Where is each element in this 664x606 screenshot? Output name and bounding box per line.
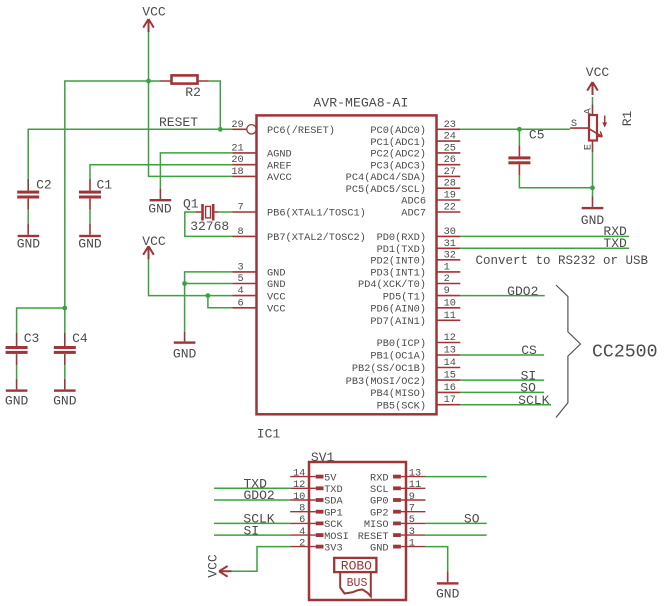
svg-text:VCC: VCC [142, 5, 166, 20]
svg-text:R2: R2 [185, 85, 201, 100]
svg-text:RXD: RXD [370, 472, 389, 484]
svg-text:PD4(XCK/T0): PD4(XCK/T0) [358, 279, 426, 291]
svg-text:Convert to RS232 or USB: Convert to RS232 or USB [476, 254, 649, 268]
svg-text:17: 17 [444, 394, 456, 406]
svg-text:19: 19 [444, 190, 456, 202]
svg-text:SCK: SCK [324, 519, 343, 531]
svg-text:13: 13 [409, 467, 421, 479]
svg-text:23: 23 [444, 119, 456, 131]
svg-text:SCL: SCL [370, 484, 389, 496]
svg-text:GND: GND [78, 237, 102, 252]
svg-text:PB7(XTAL2/TOSC2): PB7(XTAL2/TOSC2) [267, 232, 366, 244]
svg-text:10: 10 [293, 491, 305, 503]
svg-text:11: 11 [444, 310, 456, 322]
svg-text:2: 2 [444, 273, 450, 285]
svg-text:1: 1 [444, 261, 450, 273]
svg-text:AVCC: AVCC [267, 172, 292, 184]
svg-text:RESET: RESET [358, 531, 389, 543]
svg-text:30: 30 [444, 226, 456, 238]
svg-text:PB6(XTAL1/TOSC1): PB6(XTAL1/TOSC1) [267, 208, 366, 220]
svg-text:TXD: TXD [324, 484, 343, 496]
svg-text:PD1(TXD): PD1(TXD) [377, 244, 426, 256]
svg-text:SO: SO [464, 512, 480, 527]
svg-text:8: 8 [299, 503, 305, 515]
svg-text:13: 13 [444, 345, 456, 357]
svg-text:4: 4 [299, 526, 305, 538]
svg-text:29: 29 [231, 119, 243, 131]
svg-text:15: 15 [444, 370, 456, 382]
svg-text:3V3: 3V3 [324, 542, 343, 554]
svg-text:32768: 32768 [190, 219, 229, 234]
svg-text:2: 2 [299, 537, 305, 549]
svg-text:IC1: IC1 [257, 426, 281, 441]
svg-text:SDA: SDA [324, 496, 343, 508]
svg-text:1: 1 [409, 537, 415, 549]
svg-text:PD7(AIN1): PD7(AIN1) [370, 316, 426, 328]
svg-text:GP0: GP0 [370, 496, 389, 508]
svg-text:ADC7: ADC7 [401, 208, 426, 220]
svg-text:GND: GND [53, 393, 77, 408]
svg-text:28: 28 [444, 178, 456, 190]
svg-text:R1: R1 [620, 111, 635, 127]
svg-text:27: 27 [444, 166, 456, 178]
svg-text:14: 14 [293, 467, 305, 479]
svg-text:MISO: MISO [364, 519, 389, 531]
svg-text:PC3(ADC3): PC3(ADC3) [370, 160, 426, 172]
svg-text:RESET: RESET [159, 115, 198, 130]
svg-text:14: 14 [444, 357, 456, 369]
svg-text:GDO2: GDO2 [244, 488, 275, 503]
svg-text:VCC: VCC [142, 234, 166, 249]
svg-text:12: 12 [444, 332, 456, 344]
svg-text:GND: GND [267, 268, 286, 280]
svg-text:PC0(ADC0): PC0(ADC0) [370, 125, 426, 137]
svg-text:C3: C3 [24, 331, 40, 346]
svg-text:PD6(AIN0): PD6(AIN0) [370, 304, 426, 316]
svg-text:3: 3 [409, 526, 415, 538]
svg-text:31: 31 [444, 238, 456, 250]
svg-text:22: 22 [444, 202, 456, 214]
svg-text:SI: SI [244, 523, 260, 538]
svg-text:GND: GND [5, 393, 29, 408]
svg-text:PD3(INT1): PD3(INT1) [370, 268, 426, 280]
svg-text:32: 32 [444, 249, 456, 261]
svg-text:C1: C1 [97, 178, 113, 193]
svg-text:AREF: AREF [267, 160, 292, 172]
svg-text:MOSI: MOSI [324, 531, 349, 543]
svg-text:10: 10 [444, 297, 456, 309]
svg-text:VCC: VCC [267, 304, 286, 316]
svg-text:3: 3 [238, 261, 244, 273]
svg-text:PC1(ADC1): PC1(ADC1) [370, 137, 426, 149]
svg-text:24: 24 [444, 131, 456, 143]
svg-text:5: 5 [409, 514, 415, 526]
svg-text:C5: C5 [529, 127, 545, 142]
svg-text:8: 8 [238, 226, 244, 238]
svg-text:11: 11 [409, 479, 421, 491]
svg-text:C4: C4 [72, 331, 88, 346]
svg-text:PB0(ICP): PB0(ICP) [377, 338, 426, 350]
svg-text:PD5(T1): PD5(T1) [383, 291, 426, 303]
svg-text:6: 6 [299, 514, 305, 526]
svg-text:GP1: GP1 [324, 507, 343, 519]
svg-text:PC6(/RESET): PC6(/RESET) [267, 125, 335, 137]
svg-text:PC2(ADC2): PC2(ADC2) [370, 149, 426, 161]
svg-text:GND: GND [148, 202, 172, 217]
svg-text:AGND: AGND [267, 149, 292, 161]
svg-text:PD0(RXD): PD0(RXD) [377, 232, 426, 244]
svg-text:9: 9 [409, 491, 415, 503]
svg-text:5: 5 [238, 273, 244, 285]
svg-text:CS: CS [521, 343, 537, 358]
svg-text:AVR-MEGA8-AI: AVR-MEGA8-AI [313, 95, 408, 110]
svg-text:VCC: VCC [586, 65, 610, 80]
svg-text:25: 25 [444, 142, 456, 154]
svg-text:C2: C2 [36, 178, 52, 193]
svg-text:GP2: GP2 [370, 507, 389, 519]
svg-text:18: 18 [231, 166, 243, 178]
svg-text:5V: 5V [324, 472, 337, 484]
svg-text:7: 7 [238, 202, 244, 214]
svg-text:BUS: BUS [347, 577, 368, 590]
svg-text:6: 6 [238, 297, 244, 309]
svg-text:GND: GND [581, 213, 605, 228]
svg-text:7: 7 [409, 503, 415, 515]
svg-text:21: 21 [231, 142, 243, 154]
svg-text:S: S [571, 118, 577, 130]
svg-text:PC5(ADC5/SCL): PC5(ADC5/SCL) [346, 184, 426, 196]
svg-text:SCLK: SCLK [518, 393, 549, 408]
svg-text:CC2500: CC2500 [592, 342, 658, 362]
svg-text:PB2(SS/OC1B): PB2(SS/OC1B) [352, 363, 426, 375]
svg-text:PB1(OC1A): PB1(OC1A) [370, 351, 426, 363]
svg-text:GND: GND [436, 587, 460, 602]
svg-text:ROBO: ROBO [341, 558, 372, 573]
svg-text:GND: GND [173, 347, 197, 362]
svg-text:PB4(MISO): PB4(MISO) [370, 388, 426, 400]
svg-text:SV1: SV1 [311, 450, 335, 465]
svg-text:PB3(MOSI/OC2): PB3(MOSI/OC2) [346, 376, 426, 388]
svg-text:12: 12 [293, 479, 305, 491]
svg-text:A: A [583, 107, 595, 114]
svg-text:ADC6: ADC6 [401, 196, 426, 208]
svg-text:PC4(ADC4/SDA): PC4(ADC4/SDA) [346, 172, 426, 184]
svg-text:E: E [583, 144, 595, 150]
svg-text:PB5(SCK): PB5(SCK) [377, 400, 426, 412]
svg-text:VCC: VCC [267, 291, 286, 303]
svg-text:26: 26 [444, 154, 456, 166]
svg-text:VCC: VCC [206, 554, 221, 578]
svg-text:GND: GND [267, 279, 286, 291]
svg-text:4: 4 [238, 285, 244, 297]
svg-text:16: 16 [444, 382, 456, 394]
svg-text:9: 9 [444, 285, 450, 297]
svg-text:GND: GND [17, 237, 41, 252]
svg-text:GND: GND [370, 542, 389, 554]
svg-text:20: 20 [231, 154, 243, 166]
svg-text:TXD: TXD [603, 236, 627, 251]
svg-text:Q1: Q1 [183, 197, 199, 212]
svg-text:PD2(INT0): PD2(INT0) [370, 256, 426, 268]
svg-text:GDO2: GDO2 [507, 284, 538, 299]
